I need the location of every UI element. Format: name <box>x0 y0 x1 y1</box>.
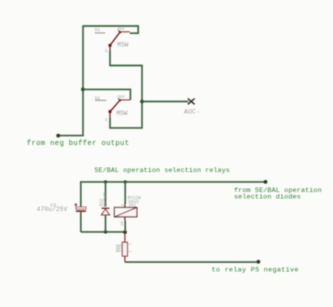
label S1 name <box>95 27 106 34</box>
diode D12 cathode bar <box>102 207 110 209</box>
svg-text:OFF: OFF <box>117 96 125 100</box>
label: SE/BAL operation selection relays title <box>94 167 230 174</box>
label S2 throw pin name <box>117 96 125 100</box>
wire: relay coil to bottom net <box>124 217 126 221</box>
relay K1 labels <box>128 196 142 208</box>
svg-text:from neg buffer output: from neg buffer output <box>27 140 130 148</box>
node A: unconnected cross AUC- <box>188 99 195 105</box>
svg-text:470u/25V: 470u/25V <box>37 206 68 213</box>
node: end dot to relay PS negative <box>257 260 261 264</box>
label D12 value 1N4148 (vertical) <box>103 192 108 208</box>
switch S1 blade and pivot <box>108 31 120 47</box>
label S1 throw pin name <box>117 28 125 32</box>
diode D12 body triangle <box>102 209 110 215</box>
wire: bottom net between C3, D12, K1, R9 <box>81 231 125 233</box>
svg-text:AUC-: AUC- <box>184 109 200 116</box>
label S2 value MSW <box>116 110 127 117</box>
wire: rail to diode D12 <box>105 182 107 207</box>
node: junction rail / diode D12 <box>104 180 107 183</box>
node: junction to AUC- stub <box>140 100 144 104</box>
label S2 pole pin number <box>105 117 108 123</box>
label R9 name (vertical) <box>116 244 121 252</box>
svg-text:1: 1 <box>105 48 108 54</box>
svg-text:MSW: MSW <box>116 110 127 117</box>
svg-text:OFF: OFF <box>117 28 125 32</box>
svg-text:270: 270 <box>119 244 124 252</box>
relay K1 coil box <box>114 208 136 217</box>
wire: stub to AUC- cross <box>142 101 188 103</box>
switch S2 bottom pin <box>109 112 111 118</box>
svg-text:351: 351 <box>128 203 136 208</box>
node: end dot at from-neg-buffer-output wire <box>56 134 60 138</box>
svg-text:1N4148: 1N4148 <box>103 192 108 208</box>
svg-text:S1: S1 <box>95 27 101 33</box>
wire: left vertical bus down to 'from neg buffer output' <box>58 25 83 135</box>
label C3 name <box>50 202 56 208</box>
svg-text:1: 1 <box>129 242 133 245</box>
wire: C3 to bottom net <box>80 212 82 232</box>
node: junction on left bus feeding S2 <box>81 88 85 92</box>
label: to relay PS negative <box>212 267 299 275</box>
label: from SE/BAL operation selection diodes <box>234 187 322 202</box>
wire: rail to relay K1 coil <box>124 182 126 204</box>
switch S2 blade and pivot <box>108 100 120 114</box>
capacitor C3 bottom plate <box>76 210 86 212</box>
resistor R9 bottom pin <box>124 256 126 262</box>
label R9 value 270 (vertical) <box>119 244 124 252</box>
svg-text:2: 2 <box>129 250 133 253</box>
svg-text:MSW: MSW <box>117 42 128 49</box>
node: junction rail / relay K1 <box>124 180 127 183</box>
label D12 name (vertical) <box>100 198 105 206</box>
switch S1 bottom pin <box>109 45 111 50</box>
wire: main positive rail <box>81 182 266 207</box>
svg-text:to relay PS negative: to relay PS negative <box>212 267 299 275</box>
svg-text:selection diodes: selection diodes <box>234 194 301 202</box>
label C3 value 470u/25V <box>37 206 68 213</box>
label R9 pin numbers (vertical) <box>129 242 133 252</box>
wire: top net from S1 throw contact <box>83 26 138 33</box>
relay K1 bottom pin number (vertical) <box>121 221 125 226</box>
svg-text:1: 1 <box>105 117 108 123</box>
node: junction bottom net / diode <box>104 230 107 233</box>
wire: S2 throw contact feed <box>83 89 130 100</box>
capacitor C3 top plate <box>76 207 86 209</box>
label: from neg buffer output <box>27 140 130 148</box>
resistor R9 top pin <box>124 232 126 242</box>
wire: S1 pole to S2 pole via right vertical <box>110 51 142 128</box>
switch S2 contact pin <box>118 98 130 101</box>
capacitor C3 plus mark <box>74 203 77 206</box>
svg-text:SE/BAL operation selection rel: SE/BAL operation selection relays <box>94 167 230 174</box>
wire: to relay PS negative <box>125 261 259 263</box>
svg-text:16: 16 <box>121 221 125 226</box>
relay K1 top pin number (vertical) <box>121 204 125 207</box>
node: rail end dot (to selection diodes) <box>264 180 268 184</box>
node: junction bottom net / relay+resistor <box>123 230 127 234</box>
label S2 name <box>95 95 107 101</box>
label S1 value MSW <box>117 42 128 49</box>
switch S1 contact pin <box>118 30 130 33</box>
wire: diode to bottom net <box>105 215 107 232</box>
label AUC- net name <box>184 109 200 116</box>
label S1 pole pin number <box>105 48 108 54</box>
resistor R9 body <box>122 242 127 256</box>
